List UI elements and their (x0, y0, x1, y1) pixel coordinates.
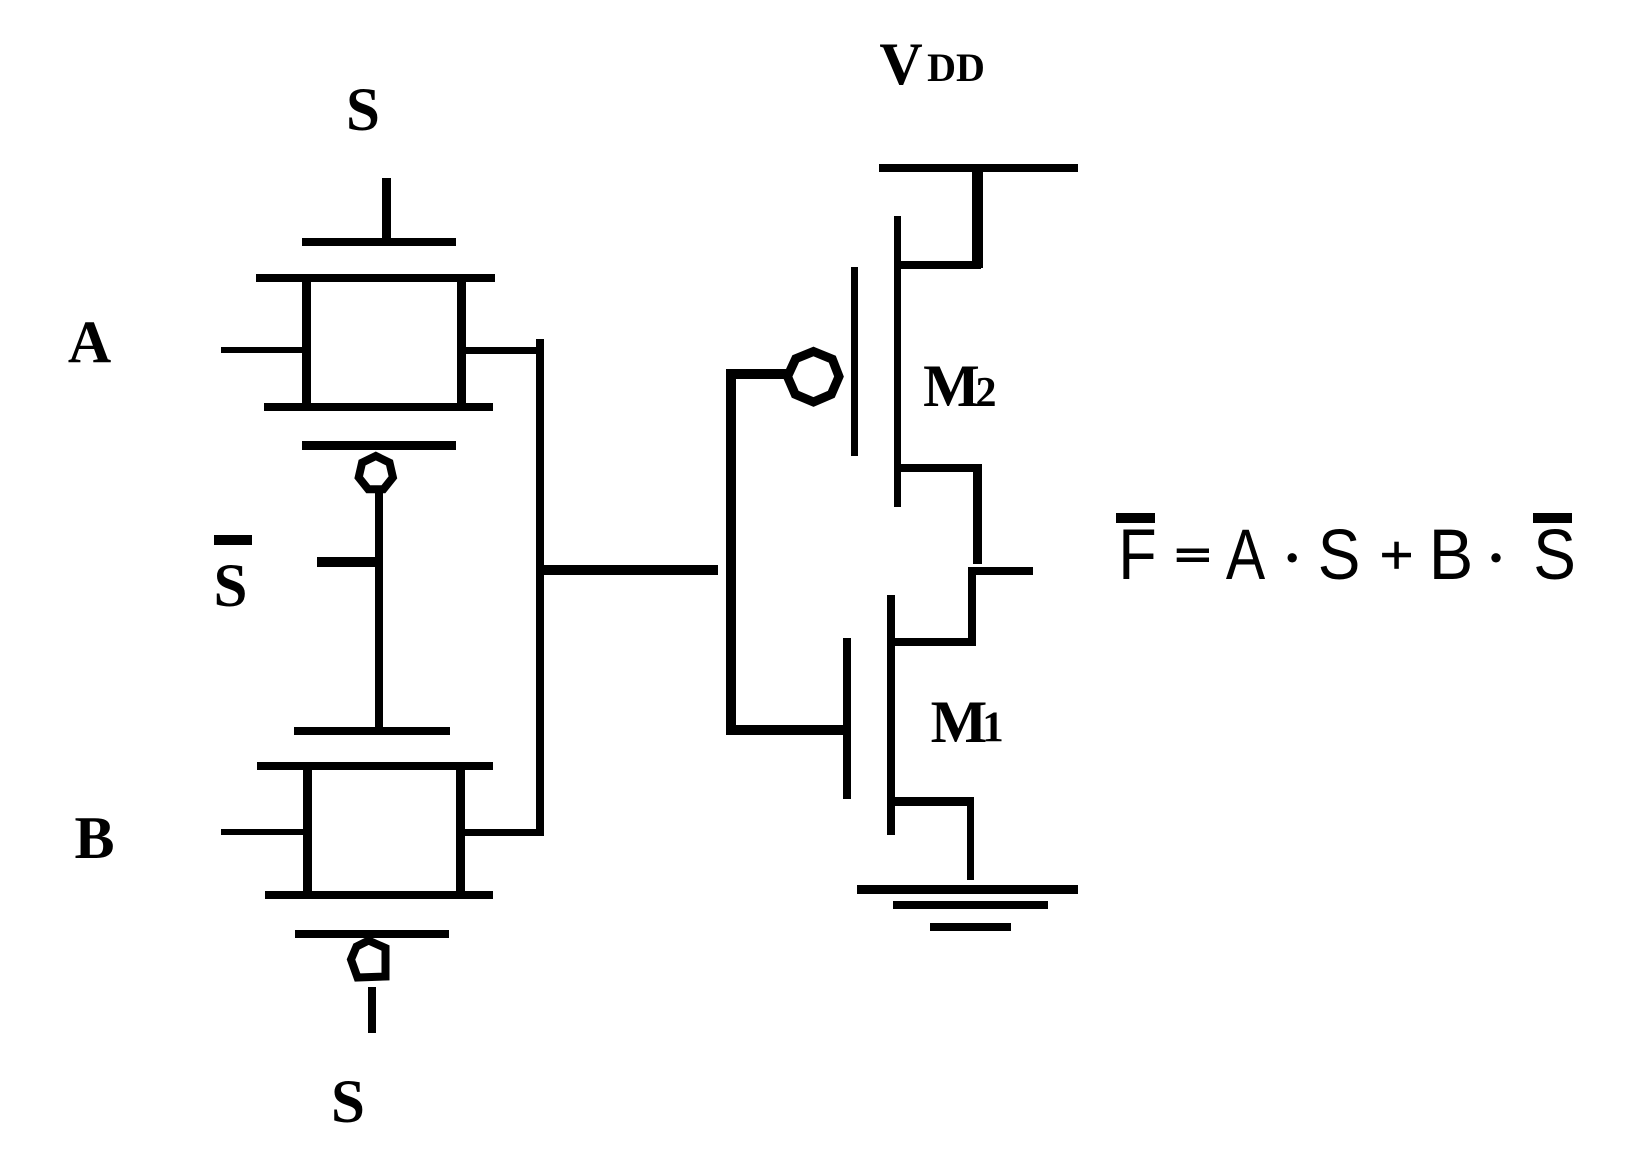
transmission gate TG1 box bottom line (264, 403, 493, 411)
transmission gate TG2 gate bubble (351, 941, 386, 978)
svg-text:S: S (214, 553, 248, 620)
wire input B (221, 829, 307, 835)
svg-text:M: M (923, 353, 980, 419)
label Sbar overline (equation) (1533, 513, 1572, 523)
svg-text:S: S (331, 1069, 365, 1136)
ground symbol line 3 (930, 923, 1011, 931)
wire TG1 output (461, 347, 544, 354)
svg-text:2: 2 (976, 370, 997, 416)
transistor M2 source tab (898, 261, 981, 269)
wire node X to inverter input (536, 565, 718, 575)
svg-text:A: A (68, 309, 111, 375)
transmission gate TG1 box left side (302, 274, 311, 411)
wire M1 source to ground (967, 797, 974, 880)
wire S stub to TG1 top gate (382, 178, 391, 246)
transistor M1 drain tab (894, 638, 972, 646)
transmission gate TG1 gate bubble (359, 456, 393, 489)
svg-text:V: V (879, 31, 922, 97)
wire Sbar stub (317, 557, 379, 567)
node X vertical wire joining TG outputs (536, 339, 544, 836)
svg-text:B: B (74, 805, 114, 871)
wire M1 drain to output node (968, 568, 976, 646)
ground symbol line 2 (893, 901, 1048, 909)
transmission gate TG1 top gate bar (302, 238, 456, 246)
svg-text:M: M (931, 689, 988, 755)
transmission gate TG1 box top line (256, 274, 495, 282)
svg-text:S: S (1318, 516, 1361, 595)
wire S stub below TG2 bubble (368, 987, 376, 1033)
label Fbar overline (1116, 513, 1155, 523)
wire output F stub (968, 567, 1033, 575)
svg-text:F: F (1118, 515, 1156, 594)
wire TG2 output (460, 829, 543, 836)
VDD rail bar (879, 164, 1078, 172)
svg-text:S: S (1533, 516, 1576, 595)
transistor M1 channel line (887, 595, 895, 835)
transmission gate TG2 bottom gate bar (295, 930, 449, 938)
wire M2 gate (726, 369, 786, 379)
transmission gate TG1 box right side (457, 274, 466, 411)
transmission gate TG2 box bottom line (265, 891, 493, 899)
svg-text:B: B (1429, 515, 1474, 594)
svg-text:S: S (346, 77, 380, 144)
wire M2 source to VDD (972, 167, 983, 268)
transmission gate TG2 box right side (456, 762, 465, 899)
transistor M2 drain tab (898, 464, 981, 472)
transistor M2 gate line (851, 267, 858, 456)
transistor M2 gate bubble (788, 352, 840, 403)
wire inverter input vertical (726, 369, 736, 735)
wire Sbar vertical (TG1 bubble to TG2 gate) (375, 489, 383, 735)
svg-text:1: 1 (982, 704, 1004, 751)
transistor M1 gate line (843, 638, 851, 799)
wire input A (221, 347, 306, 353)
ground symbol line 1 (857, 885, 1078, 894)
transmission gate TG1 bottom gate bar (302, 441, 456, 450)
svg-text:A: A (1226, 515, 1266, 594)
label Sbar overline (214, 535, 252, 545)
transistor M1 source tab (890, 797, 974, 806)
wire M1 gate (726, 725, 847, 735)
transmission gate TG2 box top line (257, 762, 493, 770)
svg-text:DD: DD (927, 45, 985, 90)
transistor M2 channel line (894, 216, 901, 507)
transmission gate TG2 box left side (303, 762, 312, 899)
wire M2 drain to output node (973, 464, 982, 564)
transmission gate TG2 top gate bar (294, 727, 450, 735)
